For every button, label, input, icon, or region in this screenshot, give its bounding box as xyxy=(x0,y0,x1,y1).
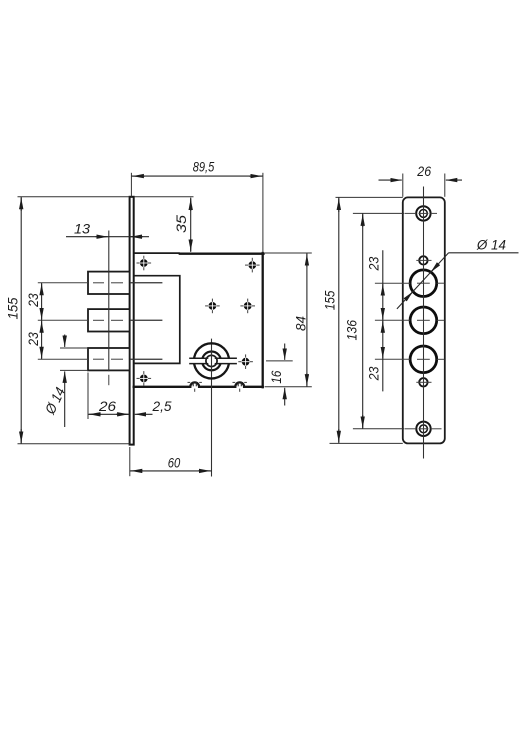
small hole bottom xyxy=(419,378,427,386)
svg-text:Ø 14: Ø 14 xyxy=(476,237,506,253)
dim 13 line xyxy=(66,236,149,238)
dim 2,5 arrow + tail xyxy=(135,413,153,415)
dim 23 upper arrows xyxy=(41,284,43,295)
svg-text:16: 16 xyxy=(269,371,285,384)
dim 23 line (right view) xyxy=(382,250,384,391)
bolt hole 3 xyxy=(410,346,437,373)
left tab slot xyxy=(192,382,194,387)
screw mark mid-left xyxy=(205,299,220,314)
bolt3 center extension to 23 dim xyxy=(38,358,88,360)
dim 136 arrows xyxy=(362,214,364,227)
bolt 1 shaft line inside case xyxy=(131,282,163,284)
dim 155 top extension xyxy=(18,196,130,198)
cylinder mid ring xyxy=(202,352,221,371)
svg-text:60: 60 xyxy=(168,455,181,471)
screw mark top-right xyxy=(245,258,260,273)
svg-text:23: 23 xyxy=(367,257,383,272)
bolt2 center extension to 23 dim xyxy=(38,319,88,321)
key slot lower line xyxy=(189,363,237,365)
screw mark top-left xyxy=(137,256,152,271)
dim 89,5 arrows xyxy=(132,175,145,177)
dim 155 top extension xyxy=(336,196,403,198)
dim 26 right arrow xyxy=(446,179,462,181)
svg-text:89,5: 89,5 xyxy=(193,160,215,176)
vertical reference line through bolts (13 dim) xyxy=(108,231,110,372)
dim 16 upper arrow xyxy=(284,344,286,360)
small hole top centerline xyxy=(416,259,431,261)
svg-text:23: 23 xyxy=(367,367,383,382)
dim d14 upper arrow xyxy=(64,335,66,348)
dim 60 line xyxy=(130,470,212,472)
body top edge extended right (84 ext) xyxy=(265,252,312,254)
small hole top xyxy=(419,256,427,264)
dim 155 bottom extension xyxy=(330,442,403,444)
ext line faceplate left edge down (60) xyxy=(129,447,131,476)
dim 155 arrows xyxy=(338,199,340,213)
d14 leader shelf xyxy=(449,252,519,254)
svg-text:13: 13 xyxy=(74,222,90,238)
dim 23 arrows lower pair xyxy=(382,321,384,333)
bottom screw hole centerline xyxy=(405,428,417,430)
deadbolt 2 xyxy=(88,309,130,331)
svg-text:136: 136 xyxy=(345,320,361,341)
small hole bottom centerline xyxy=(416,381,431,383)
right tab slot xyxy=(237,382,239,387)
svg-text:2,5: 2,5 xyxy=(152,399,172,415)
bolt3 top edge extension (d14) xyxy=(60,347,88,349)
dim 89,5 line xyxy=(131,175,263,177)
svg-text:155: 155 xyxy=(322,291,338,311)
screw mark right of cylinder xyxy=(238,354,253,369)
bolt hole 2 xyxy=(410,307,437,334)
dim 23 lower arrows xyxy=(41,321,43,333)
bolt hole 1 xyxy=(410,270,437,297)
dashed continuation below bolt 3 xyxy=(108,375,110,385)
d14 leader arrows on circle xyxy=(431,264,439,272)
svg-text:23: 23 xyxy=(26,293,42,307)
bolt1 center extension to 23 dim xyxy=(38,282,88,284)
dim 84 arrows xyxy=(306,254,308,267)
lock body top edge (thin left part) xyxy=(134,252,180,254)
dim 155 arrows xyxy=(20,198,22,211)
key slot upper line xyxy=(189,357,237,359)
dim 136 top extension xyxy=(353,212,404,214)
left tab centerline ticks xyxy=(188,381,191,383)
deadbolt 1 xyxy=(88,272,130,294)
body bottom edge extended right (84 ext) xyxy=(265,386,312,388)
strike plate (front view) xyxy=(403,197,445,443)
bolt hole 2 centerline xyxy=(375,319,410,321)
svg-text:35: 35 xyxy=(174,215,190,233)
dim 16 lower arrow xyxy=(284,388,286,406)
svg-text:155: 155 xyxy=(5,297,21,319)
cylinder inner circle xyxy=(206,355,217,366)
plate vertical centerline (over holes) xyxy=(423,187,425,459)
bolt 1 centerline dashes xyxy=(93,282,104,284)
dim 26 line xyxy=(88,413,130,415)
top screw hole centerline xyxy=(405,212,417,214)
dim 89,5 extension left xyxy=(130,173,132,197)
bolt 2 centerline dashes xyxy=(93,319,104,321)
dim 23 upper line xyxy=(41,283,43,359)
dim 26 arrows xyxy=(89,413,101,415)
svg-text:26: 26 xyxy=(416,164,431,180)
screw mark bottom-left xyxy=(137,371,152,386)
screw mark mid-right xyxy=(240,299,255,314)
dim 155 bottom extension xyxy=(18,443,130,445)
dim 89,5 extension right xyxy=(262,173,264,253)
centerline over cylinder center xyxy=(211,350,213,372)
dim 60 arrows xyxy=(131,470,143,472)
lock body top edge (thick right part) xyxy=(180,253,264,255)
dim 136 bottom extension xyxy=(353,428,404,430)
svg-text:84: 84 xyxy=(293,316,309,331)
dim 155 line xyxy=(20,197,22,444)
dim 13 arrows (outside) xyxy=(96,236,108,238)
faceplate top edge extended (35 ext) xyxy=(134,196,194,198)
bottom screw hole xyxy=(416,422,430,436)
cylinder outer circle xyxy=(194,343,229,378)
key slot white band xyxy=(188,358,239,363)
d14 leader diagonal xyxy=(397,253,449,309)
slot lines over center xyxy=(205,357,209,359)
bolt3 bottom edge extension (d14) xyxy=(60,369,88,371)
deadbolt 3 xyxy=(88,348,130,370)
bolt 2 shaft line inside case xyxy=(131,319,163,321)
bolt 3 shaft line inside case xyxy=(131,358,163,360)
dim 26 extensions xyxy=(402,174,404,197)
right tab centerline ticks xyxy=(233,381,236,383)
ext line bolt left edge down xyxy=(87,373,89,420)
dim 35 line xyxy=(190,198,192,252)
top screw hole xyxy=(416,206,430,220)
bolt 3 centerline dashes xyxy=(93,358,104,360)
cylinder center extension right (16 ext) xyxy=(266,360,293,362)
svg-text:23: 23 xyxy=(26,332,42,346)
svg-text:26: 26 xyxy=(98,399,116,415)
dim 26 left arrow xyxy=(379,179,402,181)
dim 23 arrows upper pair xyxy=(382,284,384,295)
dim d14 lower arrow + tail xyxy=(64,371,66,427)
dim 136 line xyxy=(362,213,364,428)
lock body bottom edge with two screw-tab bumps xyxy=(134,382,263,386)
inner case rectangle xyxy=(134,276,180,364)
bolt hole 3 centerline xyxy=(375,358,410,360)
cylinder vertical centerline xyxy=(211,339,213,477)
lock body right edge xyxy=(262,253,264,387)
dim 84 line xyxy=(306,253,308,386)
bolt hole 1 centerline xyxy=(375,282,410,284)
dim 155 line xyxy=(338,198,340,444)
dim 35 arrows xyxy=(190,199,192,211)
faceplate (side view, 2.5 thick strip) xyxy=(130,197,134,445)
